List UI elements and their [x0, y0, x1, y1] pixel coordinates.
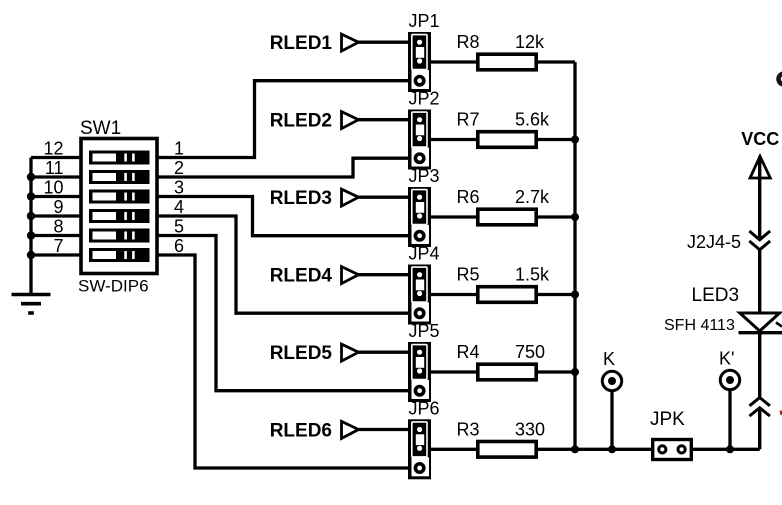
wire bottom rail to JPK: [575, 448, 652, 451]
svg-text:RLED3: RLED3: [270, 188, 332, 209]
wire LED3 to connector: [758, 333, 761, 398]
svg-text:2: 2: [174, 158, 184, 178]
wire RLED1 to JP1 pin 1: [359, 41, 409, 44]
junction dot: [571, 136, 579, 144]
svg-text:3: 3: [174, 178, 184, 198]
junction dot: [571, 368, 579, 376]
svg-text:2.7k: 2.7k: [515, 187, 550, 207]
VCC symbol: [750, 156, 770, 181]
SW1 pin 7: [31, 236, 81, 256]
svg-text:12: 12: [43, 139, 63, 159]
svg-text:RLED2: RLED2: [270, 111, 332, 132]
junction dot: [726, 445, 734, 453]
node (cut-off circle at edge): [779, 74, 782, 85]
svg-text:5: 5: [174, 217, 184, 237]
svg-text:5.6k: 5.6k: [515, 110, 550, 130]
svg-text:1.5k: 1.5k: [515, 265, 550, 285]
svg-text:RLED4: RLED4: [270, 266, 333, 287]
svg-text:SFH 4113: SFH 4113: [664, 317, 735, 334]
wire R4 to bus: [538, 370, 575, 373]
signal arrow RLED1: [342, 34, 359, 51]
svg-text:R4: R4: [457, 342, 480, 362]
jumper JP2: [408, 110, 431, 170]
svg-text:SW-DIP6: SW-DIP6: [78, 277, 149, 296]
resistor R4: [478, 364, 536, 380]
svg-text:10: 10: [43, 178, 63, 198]
svg-text:JP4: JP4: [409, 244, 440, 264]
SW1 pin 9: [31, 197, 81, 217]
svg-text:R8: R8: [457, 32, 480, 52]
SW1 pin 8: [31, 217, 81, 237]
svg-text:4: 4: [174, 197, 184, 217]
resistor R7: [478, 132, 536, 148]
jumper JP5: [408, 342, 431, 402]
jumper JPK: [653, 440, 692, 460]
svg-text:R7: R7: [457, 110, 480, 130]
signal arrow RLED3: [342, 189, 359, 206]
svg-text:K': K': [719, 349, 734, 369]
wire SW1 pin 5 to JP5 pin 3: [157, 236, 409, 391]
svg-text:JP6: JP6: [409, 398, 440, 418]
junction dot: [571, 445, 579, 453]
resistor R8: [478, 54, 536, 70]
signal arrow RLED2: [342, 112, 359, 129]
svg-text:8: 8: [53, 217, 63, 237]
SW1 pin 11: [31, 158, 81, 178]
switch SW1 body: [81, 139, 157, 274]
wire RLED3 to JP3 pin 1: [359, 196, 409, 199]
junction dot: [27, 231, 35, 239]
svg-text:SW1: SW1: [80, 118, 121, 139]
svg-text:750: 750: [515, 342, 545, 362]
wire SW1 pin 6 to JP6 pin 3: [157, 255, 409, 468]
svg-text:11: 11: [45, 158, 64, 178]
svg-text:R3: R3: [457, 419, 480, 439]
ground: [12, 295, 51, 314]
wire R5 to bus: [538, 293, 575, 296]
signal arrow RLED6: [342, 421, 359, 438]
svg-text:12k: 12k: [515, 32, 545, 52]
junction dot: [27, 173, 35, 181]
resistor R6: [478, 209, 536, 225]
svg-text:RLED5: RLED5: [270, 343, 333, 364]
wire SW1 pin 4 to JP4 pin 3: [157, 216, 409, 313]
test point K: [602, 371, 621, 390]
wire RLED2 to JP2 pin 1: [359, 118, 409, 121]
junction dot: [27, 212, 35, 220]
resistor R5: [478, 287, 536, 303]
svg-text:6: 6: [174, 236, 184, 256]
wire K' stem: [728, 389, 731, 449]
svg-text:9: 9: [53, 197, 63, 217]
test point K': [720, 370, 739, 389]
junction dot: [571, 213, 579, 221]
wire JP5 pin 2 to R4: [431, 370, 477, 373]
svg-text:330: 330: [515, 419, 545, 439]
wire JP1 pin 2 to R8: [431, 60, 477, 63]
svg-text:7: 7: [53, 236, 63, 256]
svg-text:RLED1: RLED1: [270, 33, 333, 54]
wire K stem: [610, 390, 613, 449]
svg-text:JP3: JP3: [409, 166, 440, 186]
wire SW1 pin 3 to JP3 pin 3: [157, 197, 409, 236]
SW1 pin 12: [31, 139, 81, 159]
junction dot: [608, 445, 616, 453]
jumper JP4: [408, 265, 431, 325]
svg-text:1: 1: [174, 139, 184, 159]
svg-text:R6: R6: [457, 187, 480, 207]
svg-text:JP2: JP2: [409, 89, 440, 109]
svg-text:VCC: VCC: [741, 129, 779, 149]
wire JP4 pin 2 to R5: [431, 293, 477, 296]
jumper JP1: [408, 32, 431, 92]
junction dot: [27, 251, 35, 259]
SW1 pin 10: [31, 178, 81, 198]
connector mate symbol: [750, 398, 770, 416]
signal arrow RLED4: [342, 267, 359, 284]
wire JP3 pin 2 to R6: [431, 215, 477, 218]
wire RLED4 to JP4 pin 1: [359, 273, 409, 276]
wire R7 to bus: [538, 138, 575, 141]
jumper JP3: [408, 187, 431, 247]
jumper JP6: [408, 419, 431, 479]
wire connector to bottom rail: [758, 408, 761, 450]
resistor R3: [478, 442, 536, 458]
wire VCC to connector: [758, 182, 761, 240]
svg-text:JP1: JP1: [409, 11, 440, 31]
svg-text:R5: R5: [457, 265, 480, 285]
LED D3 symbol: [739, 313, 782, 333]
wire ground rail: [29, 158, 32, 295]
wire JPK to LED branch: [693, 448, 760, 451]
wire R6 to bus: [538, 215, 575, 218]
wire SW1 pin 1 to JP1 pin 3: [157, 81, 409, 158]
wire JP2 pin 2 to R7: [431, 138, 477, 141]
signal arrow RLED5: [342, 344, 359, 361]
node (cut-off mark at edge): [781, 411, 782, 416]
wire RLED5 to JP5 pin 1: [359, 351, 409, 354]
wire connector to LED3: [758, 250, 761, 313]
wire SW1 pin 2 to JP2 pin 3: [157, 158, 409, 177]
svg-text:RLED6: RLED6: [270, 421, 332, 442]
junction dot: [27, 192, 35, 200]
svg-text:JP5: JP5: [409, 321, 440, 341]
wire JP6 pin 2 to R3: [431, 448, 477, 451]
wire RLED6 to JP6 pin 1: [359, 428, 409, 431]
wire R8 to bus: [538, 60, 575, 63]
svg-text:K: K: [603, 349, 615, 369]
svg-text:LED3: LED3: [692, 285, 740, 306]
junction dot: [571, 291, 579, 299]
wire bus vertical: [573, 62, 576, 449]
wire R3 to bus: [538, 448, 575, 451]
svg-text:J2J4-5: J2J4-5: [687, 232, 741, 252]
svg-text:JPK: JPK: [650, 409, 685, 430]
connector J2J4-5 symbol: [749, 231, 770, 250]
